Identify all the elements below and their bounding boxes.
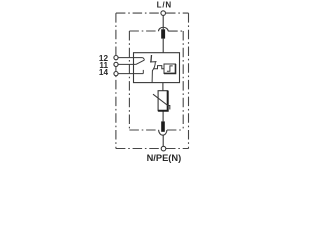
- svg-text:L/N: L/N: [157, 0, 172, 9]
- svg-text:N/PE(N): N/PE(N): [147, 153, 182, 163]
- svg-text:14: 14: [99, 68, 109, 77]
